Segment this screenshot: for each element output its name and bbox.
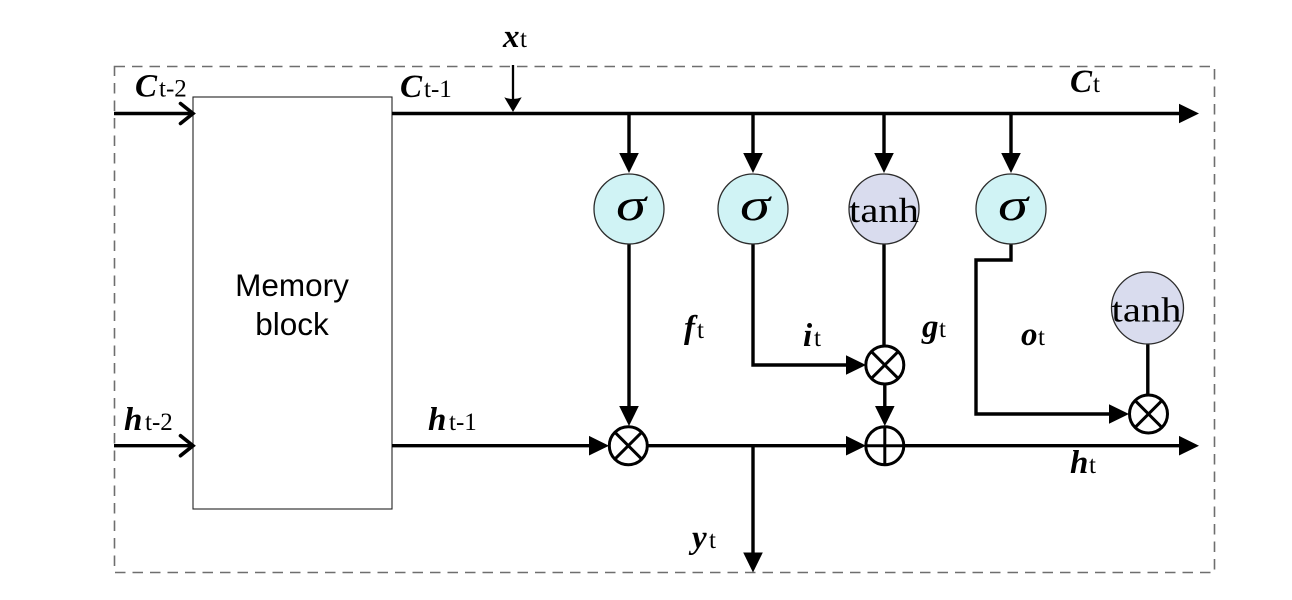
svg-text:C: C	[400, 69, 423, 105]
svg-text:σ: σ	[740, 179, 773, 230]
svg-text:o: o	[1021, 317, 1038, 353]
svg-text:t: t	[1093, 71, 1100, 98]
svg-text:t: t	[814, 325, 821, 352]
svg-text:C: C	[1070, 64, 1093, 100]
svg-text:t: t	[939, 316, 946, 343]
svg-text:t-1: t-1	[449, 409, 477, 436]
svg-text:t: t	[1038, 324, 1045, 351]
svg-text:x: x	[502, 19, 520, 55]
svg-text:t-2: t-2	[145, 409, 173, 436]
svg-text:Memory: Memory	[235, 267, 349, 303]
svg-text:σ: σ	[616, 179, 649, 230]
svg-text:t: t	[697, 317, 704, 344]
svg-text:t: t	[709, 527, 716, 554]
svg-text:block: block	[255, 306, 329, 342]
svg-text:t: t	[1089, 452, 1096, 479]
svg-text:i: i	[803, 318, 813, 354]
svg-text:h: h	[428, 402, 446, 438]
svg-text:h: h	[124, 402, 142, 438]
svg-text:g: g	[921, 309, 939, 345]
svg-text:t-1: t-1	[424, 76, 452, 103]
svg-text:σ: σ	[998, 179, 1031, 230]
svg-text:h: h	[1070, 445, 1088, 481]
svg-text:C: C	[135, 69, 158, 105]
svg-text:t: t	[520, 26, 527, 53]
svg-text:t-2: t-2	[159, 76, 187, 103]
svg-text:tanh: tanh	[849, 192, 919, 231]
svg-text:tanh: tanh	[1112, 291, 1182, 330]
